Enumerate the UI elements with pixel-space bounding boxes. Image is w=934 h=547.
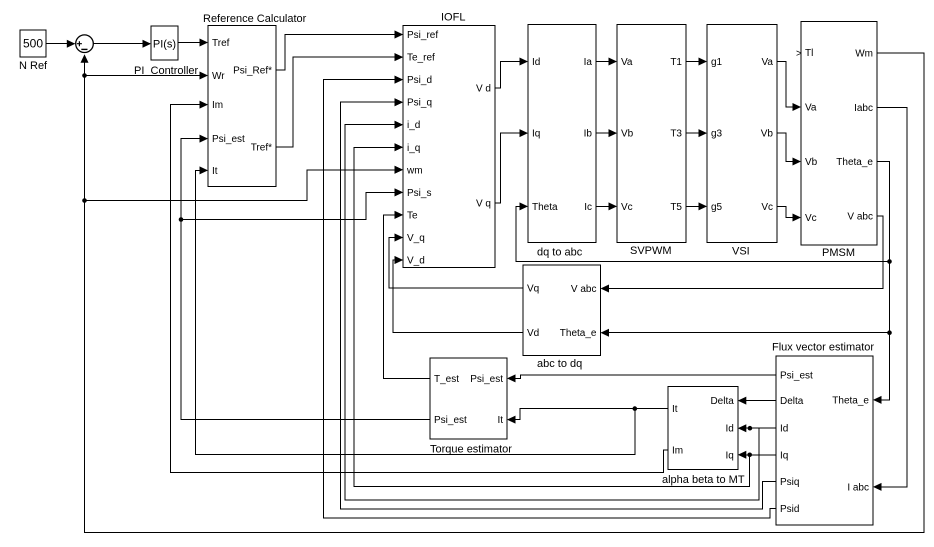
svg-text:Vc: Vc — [761, 202, 773, 213]
svg-text:V abc: V abc — [571, 284, 597, 295]
svg-text:V abc: V abc — [847, 211, 873, 222]
svg-text:500: 500 — [23, 37, 43, 51]
svg-text:Vc: Vc — [621, 202, 633, 213]
svg-text:V_q: V_q — [407, 233, 425, 244]
svg-text:Psi_q: Psi_q — [407, 98, 432, 109]
svg-text:Va: Va — [762, 57, 774, 68]
svg-text:Vq: Vq — [527, 284, 539, 295]
svg-text:Psi_d: Psi_d — [407, 75, 432, 86]
svg-text:N Ref: N Ref — [19, 60, 48, 72]
svg-text:g1: g1 — [711, 57, 723, 68]
svg-text:Ib: Ib — [584, 129, 593, 140]
svg-text:Te: Te — [407, 210, 418, 221]
svg-text:>: > — [796, 49, 802, 60]
svg-text:VSI: VSI — [732, 246, 750, 258]
svg-text:Ic: Ic — [584, 202, 592, 213]
svg-text:Torque estimator: Torque estimator — [430, 444, 512, 456]
svg-text:dq to abc: dq to abc — [537, 247, 583, 259]
svg-text:PI Controller: PI Controller — [134, 65, 199, 77]
svg-text:It: It — [672, 404, 678, 415]
svg-text:IOFL: IOFL — [441, 12, 465, 24]
svg-text:I abc: I abc — [847, 482, 869, 493]
svg-text:Psi_est: Psi_est — [780, 370, 813, 381]
svg-text:Psi_est: Psi_est — [212, 134, 245, 145]
svg-text:PI(s): PI(s) — [153, 39, 176, 51]
svg-text:Te_ref: Te_ref — [407, 53, 435, 64]
svg-text:T3: T3 — [670, 129, 682, 140]
svg-text:Vb: Vb — [805, 157, 818, 168]
svg-text:Ia: Ia — [584, 57, 593, 68]
svg-text:abc to dq: abc to dq — [537, 358, 582, 370]
svg-text:g3: g3 — [711, 129, 723, 140]
svg-text:Psi_s: Psi_s — [407, 188, 431, 199]
svg-text:PMSM: PMSM — [822, 247, 855, 259]
svg-text:V q: V q — [476, 199, 491, 210]
svg-text:Vb: Vb — [761, 129, 774, 140]
svg-text:Theta: Theta — [532, 202, 558, 213]
svg-text:Iq: Iq — [532, 129, 540, 140]
svg-text:wm: wm — [406, 165, 423, 176]
svg-text:Wm: Wm — [855, 49, 873, 60]
svg-text:Va: Va — [621, 57, 633, 68]
svg-text:Id: Id — [532, 57, 540, 68]
svg-text:Va: Va — [805, 103, 817, 114]
svg-text:Theta_e: Theta_e — [832, 395, 869, 406]
svg-text:Tref: Tref — [212, 38, 230, 49]
svg-text:Id: Id — [725, 424, 733, 435]
svg-text:It: It — [497, 415, 503, 426]
svg-text:Im: Im — [672, 446, 683, 457]
svg-text:Psi_est: Psi_est — [434, 415, 467, 426]
svg-text:T1: T1 — [670, 57, 682, 68]
svg-text:alpha beta to MT: alpha beta to MT — [662, 474, 745, 486]
svg-text:Psi_Ref*: Psi_Ref* — [233, 65, 272, 76]
svg-text:Psi_est: Psi_est — [470, 374, 503, 385]
svg-text:Theta_e: Theta_e — [836, 157, 873, 168]
svg-text:Vd: Vd — [527, 328, 539, 339]
svg-text:Vc: Vc — [805, 213, 817, 224]
svg-text:T5: T5 — [670, 202, 682, 213]
svg-text:Wr: Wr — [212, 71, 225, 82]
svg-text:i_d: i_d — [407, 120, 420, 131]
svg-text:Delta: Delta — [710, 396, 734, 407]
svg-text:i_q: i_q — [407, 143, 420, 154]
svg-text:Flux vector estimator: Flux vector estimator — [772, 342, 874, 354]
svg-text:Iq: Iq — [780, 450, 788, 461]
svg-text:Tl: Tl — [805, 48, 813, 59]
svg-text:V d: V d — [476, 84, 491, 95]
svg-text:T_est: T_est — [434, 374, 459, 385]
svg-text:It: It — [212, 166, 218, 177]
svg-text:SVPWM: SVPWM — [630, 245, 672, 257]
svg-text:Delta: Delta — [780, 396, 804, 407]
svg-text:Tref*: Tref* — [251, 143, 272, 154]
svg-text:Psi_ref: Psi_ref — [407, 30, 438, 41]
svg-text:Psiq: Psiq — [780, 477, 799, 488]
svg-text:Im: Im — [212, 100, 223, 111]
svg-text:Id: Id — [780, 424, 788, 435]
svg-text:V_d: V_d — [407, 256, 425, 267]
svg-text:Iq: Iq — [725, 450, 733, 461]
svg-text:Theta_e: Theta_e — [560, 328, 597, 339]
svg-text:Reference Calculator: Reference Calculator — [203, 13, 307, 25]
svg-text:Psid: Psid — [780, 504, 799, 515]
svg-text:g5: g5 — [711, 202, 723, 213]
svg-text:Vb: Vb — [621, 129, 634, 140]
svg-text:Iabc: Iabc — [854, 103, 873, 114]
